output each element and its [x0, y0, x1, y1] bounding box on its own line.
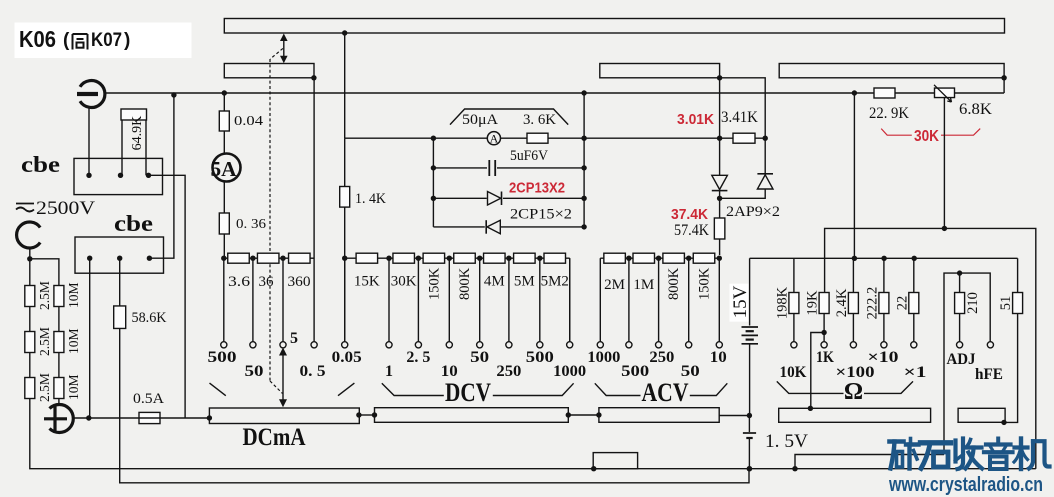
- range terminal ADJ: [957, 342, 963, 348]
- junction dot pad: [591, 466, 596, 471]
- resistor chain 2.5M x3: [29, 259, 31, 286]
- range terminal ACV 1000: [597, 342, 603, 348]
- contact pad small (bottom middle): [593, 453, 637, 469]
- range terminal DCV 2. 5: [415, 342, 421, 348]
- node DCV chain junction: [416, 256, 421, 261]
- resistor 1.4K: [344, 138, 346, 186]
- node shunt start: [221, 256, 226, 261]
- svg-text:15K: 15K: [354, 274, 380, 290]
- wire adj box top: [944, 273, 990, 454]
- resistor 22: [909, 293, 919, 314]
- label 30K red bracket: [881, 129, 912, 136]
- wire range stub 500mA: [223, 258, 225, 342]
- wire 210 to ADJ terminal: [959, 314, 961, 342]
- switch wafer bar top: [224, 19, 1004, 34]
- svg-text:50μA: 50μA: [462, 112, 498, 128]
- node shunt 50: [249, 257, 257, 259]
- wire 64.9K left lead: [121, 120, 123, 175]
- resistor 58.6K: [119, 258, 121, 306]
- svg-text:(: (: [63, 30, 70, 51]
- wire 1.4K riser to top bar: [344, 33, 346, 138]
- node 2500V divider top: [27, 256, 32, 261]
- bracket DCmA left: [210, 383, 226, 396]
- node DCV chain junction: [386, 256, 391, 261]
- wire ACV chain: [600, 257, 719, 259]
- range terminal 50mA: [250, 342, 256, 348]
- svg-text:www.crystalradio.cn: www.crystalradio.cn: [888, 473, 1043, 496]
- junction dot hFE bar: [1001, 420, 1006, 425]
- fuse 5A circle: [213, 154, 241, 182]
- junction dot omega bar: [808, 406, 813, 411]
- wire socket2 pin c down to plus wire: [89, 258, 91, 418]
- terminal jack 2500V: [17, 222, 41, 248]
- svg-text:0. 36: 0. 36: [236, 217, 266, 232]
- junction dot battery to rails: [747, 466, 752, 471]
- svg-text:2M: 2M: [604, 277, 625, 293]
- svg-text:4M: 4M: [484, 274, 505, 290]
- wire range stub DCV 50: [479, 258, 481, 342]
- wire 2500V terminal down: [29, 248, 31, 258]
- wiper arrow bottom: [282, 352, 284, 400]
- svg-text:22. 9K: 22. 9K: [869, 105, 909, 122]
- range terminal 5mA: [280, 342, 286, 348]
- svg-text:1. 5V: 1. 5V: [765, 431, 808, 452]
- junction dot 3.41K left: [717, 136, 722, 141]
- wire range stub DCV 0.05: [344, 258, 346, 342]
- wire 1.4K to DCV chain: [344, 207, 346, 342]
- svg-text:1: 1: [385, 363, 393, 380]
- meter left rail: [432, 138, 434, 227]
- resistor 800K acv: [663, 253, 685, 263]
- junction dot ACV left: [596, 412, 601, 417]
- junction dot DCV right: [566, 412, 571, 417]
- wire DCmA-DCV link: [359, 414, 374, 416]
- node feed 2.4K: [852, 256, 857, 261]
- svg-text:2.5M: 2.5M: [37, 327, 52, 356]
- svg-text:Ω: Ω: [844, 379, 863, 405]
- resistor 2M acv: [604, 253, 626, 263]
- svg-text:2.5M: 2.5M: [37, 373, 52, 402]
- resistor 150K: [423, 253, 445, 263]
- contact bar DCmA: [209, 408, 359, 424]
- svg-text:5A: 5A: [211, 157, 238, 181]
- wire 2.4K top: [852, 258, 854, 292]
- potentiometer 6.8K: [935, 88, 955, 98]
- svg-text:1M: 1M: [633, 277, 654, 293]
- diode 2CP15 (left-pointing): [487, 220, 500, 234]
- switch wafer bar A (DCmA): [224, 64, 314, 78]
- contact bar hFE: [958, 408, 1005, 422]
- range terminal x1: [911, 342, 917, 348]
- node pot wiper to edge: [942, 226, 947, 231]
- svg-text:3.6: 3.6: [228, 274, 251, 290]
- wire bus right corner to bar C: [1003, 78, 1005, 93]
- svg-text:0.04: 0.04: [234, 114, 263, 129]
- wire range stub ACV 500: [628, 258, 630, 342]
- rotary wiper arrow top: [283, 39, 285, 58]
- wire meter row1 right: [548, 137, 720, 139]
- terminal jack plus (bottom left): [50, 405, 74, 433]
- svg-text:3. 6K: 3. 6K: [523, 112, 556, 128]
- wire 19K to terminal: [823, 314, 825, 342]
- svg-text:K06: K06: [19, 26, 56, 52]
- resistor 1M acv: [633, 253, 655, 263]
- svg-text:6.8K: 6.8K: [959, 101, 992, 118]
- bracket meter label: [450, 109, 568, 125]
- resistor 5M2: [544, 253, 566, 263]
- svg-text:1. 4K: 1. 4K: [355, 191, 386, 207]
- wire DCV-ACV link: [568, 414, 599, 416]
- transistor socket box 1: [74, 158, 163, 194]
- svg-text:800K: 800K: [457, 267, 473, 300]
- battery 1.5V: [748, 416, 750, 433]
- range terminal x10: [881, 342, 887, 348]
- svg-text:22: 22: [894, 296, 910, 311]
- wiper dashed link top: [270, 48, 283, 59]
- wire meter row1 left: [345, 137, 488, 139]
- svg-text:5uF6V: 5uF6V: [510, 148, 548, 164]
- svg-text:10K: 10K: [780, 364, 808, 381]
- svg-text:×10: ×10: [868, 349, 899, 366]
- resistor 5M: [514, 253, 536, 263]
- transistor socket box 2: [75, 237, 164, 273]
- wire 64.9K right lead: [145, 120, 147, 175]
- wire 15V to ACV bar junction: [749, 344, 751, 416]
- wire feed corner to 51: [1017, 258, 1019, 292]
- wire diode row 2: [433, 226, 484, 228]
- junction dot link right: [372, 412, 377, 417]
- svg-text:1000: 1000: [553, 363, 586, 380]
- label ACV bracket: [595, 383, 641, 395]
- resistor 57.4K: [719, 198, 721, 218]
- range terminal x100: [850, 342, 856, 348]
- svg-text:cbe: cbe: [114, 211, 153, 236]
- diode 2CP13 (right-pointing): [488, 192, 501, 206]
- node ACV end: [717, 256, 722, 261]
- node 19K branch: [821, 330, 826, 335]
- resistor 800K: [454, 253, 476, 263]
- watermark crystalradio: [890, 439, 1050, 470]
- svg-text:58.6K: 58.6K: [132, 310, 167, 326]
- wire divider top jog: [30, 259, 59, 286]
- node DCV chain junction: [506, 256, 511, 261]
- wire 0.04 to 5A: [223, 131, 225, 154]
- range terminal DCV 0.05: [342, 342, 348, 348]
- contact bar omega: [779, 408, 931, 422]
- svg-text:5M: 5M: [514, 274, 535, 290]
- svg-text:150K: 150K: [697, 267, 713, 300]
- junction dot main bus x174: [171, 92, 176, 97]
- meter right rail: [583, 93, 585, 227]
- range terminal ACV 500: [626, 342, 632, 348]
- junction dot row1 right rail: [581, 136, 586, 141]
- range terminal DCV 500: [537, 342, 543, 348]
- junction dot ACV bar right: [747, 413, 752, 418]
- svg-text:30K: 30K: [391, 274, 417, 290]
- wire adj-left riser: [795, 455, 944, 469]
- svg-text:ACV: ACV: [642, 378, 689, 407]
- svg-text:36: 36: [259, 274, 275, 290]
- wire cap row: [433, 167, 487, 169]
- svg-text:cbe: cbe: [21, 152, 60, 177]
- junction dots diode row 1: [431, 196, 436, 201]
- svg-text:2. 5: 2. 5: [406, 349, 430, 366]
- wire 2.5M column to bottom rail: [30, 399, 1036, 469]
- range terminal 0.5mA: [311, 342, 317, 348]
- svg-text:250: 250: [496, 363, 521, 380]
- wire 198K top: [793, 258, 795, 292]
- title box: [15, 23, 192, 59]
- svg-text:1000: 1000: [587, 349, 620, 366]
- svg-text:1K: 1K: [816, 349, 834, 366]
- wire range stub DCV 1: [388, 258, 390, 342]
- svg-text:57.4K: 57.4K: [674, 222, 709, 239]
- wire 0.36 to shunt chain: [223, 234, 225, 258]
- junction dot diode row 2: [581, 224, 586, 229]
- wire range stub DCV 250: [508, 258, 510, 342]
- svg-text:500: 500: [208, 349, 237, 366]
- wire DCV end down: [569, 258, 571, 342]
- resistor 222.2: [879, 293, 889, 314]
- socket2 pin e: [147, 256, 152, 261]
- svg-text:2CP13X2: 2CP13X2: [509, 181, 565, 197]
- socket1 pin e: [146, 173, 151, 178]
- switch wafer bar C (right): [779, 64, 1004, 78]
- wiper dashed line vertical: [269, 59, 271, 381]
- svg-text:A: A: [490, 132, 499, 146]
- resistor 30K: [393, 253, 415, 263]
- label DCV bracket: [382, 383, 444, 395]
- wire range stub ACV 10: [718, 258, 720, 342]
- svg-text:DCmA: DCmA: [243, 424, 306, 451]
- wire pot wiper down: [943, 98, 945, 229]
- wire 3.41K jog from bar: [720, 78, 766, 173]
- wire diode row 1: [433, 197, 486, 199]
- svg-text:64.9K: 64.9K: [130, 116, 145, 151]
- diode 2AP9 b (up): [757, 173, 773, 175]
- fuse 0.5A: [139, 412, 160, 423]
- wire meter row1 mid: [501, 137, 528, 139]
- node ACV junction: [686, 256, 691, 261]
- range terminal ACV 250: [656, 342, 662, 348]
- wire trimmer junction down: [853, 93, 855, 258]
- svg-text:250: 250: [649, 349, 674, 366]
- resistor 150K acv: [693, 253, 715, 263]
- range terminal ACV 10: [716, 342, 722, 348]
- svg-text:K07: K07: [91, 30, 122, 51]
- wire socket2 pin e up to main bus: [149, 95, 174, 258]
- wire 10M column to plus terminal: [58, 399, 60, 406]
- switch wafer bar B (ACV feed): [600, 64, 720, 78]
- wire 198K to terminal: [793, 314, 795, 342]
- node DCV chain junction: [537, 256, 542, 261]
- wire x10 to terminal: [883, 314, 885, 342]
- svg-text:10M: 10M: [66, 282, 81, 308]
- wire 222.2 top: [883, 258, 885, 292]
- label omega bracket: [777, 381, 844, 393]
- wire range stub ACV 50: [688, 258, 690, 342]
- svg-text:2AP9×2: 2AP9×2: [726, 204, 780, 220]
- junction dot 3.41K right: [763, 136, 768, 141]
- svg-text:150K: 150K: [426, 267, 442, 300]
- plus sign of terminal: [53, 406, 56, 432]
- bracket DCmA right: [338, 383, 354, 396]
- node DCV chain start: [342, 256, 347, 261]
- svg-text:30K: 30K: [914, 128, 940, 145]
- resistor 198K: [789, 293, 799, 314]
- junction dot bus x224: [222, 90, 227, 95]
- junction dot top bar x344: [342, 30, 347, 35]
- range terminal 500mA: [221, 342, 227, 348]
- range terminal DCV 250: [506, 342, 512, 348]
- wire range stub 5mA: [282, 258, 284, 342]
- resistor 3.6: [224, 257, 228, 259]
- svg-text:50: 50: [470, 349, 489, 366]
- resistor 3.6K: [527, 133, 548, 143]
- svg-text:3.41K: 3.41K: [721, 109, 758, 126]
- svg-text:10: 10: [710, 349, 727, 366]
- label 15V: [730, 284, 749, 322]
- wire terminal down to socket pin1: [88, 107, 90, 175]
- resistor 3.41K: [733, 133, 755, 143]
- wire omega feed row: [750, 257, 1018, 259]
- node DCV chain junction: [447, 256, 452, 261]
- wire range stub DCV 10: [448, 258, 450, 342]
- svg-text:800K: 800K: [666, 267, 682, 300]
- junction dot DCmA bar left: [207, 415, 212, 420]
- resistor 4M: [484, 253, 506, 263]
- junction dot bar A corner: [311, 75, 316, 80]
- range terminal 1K: [821, 342, 827, 348]
- socket1 pin b: [118, 173, 123, 178]
- svg-text:10M: 10M: [66, 374, 81, 400]
- wire range stub ACV 250: [658, 258, 660, 342]
- svg-text:2.5M: 2.5M: [37, 281, 52, 310]
- galvanometer A: [487, 132, 500, 145]
- wire omega top edge: [825, 228, 1036, 468]
- resistor 0.04: [223, 93, 225, 111]
- svg-text:360: 360: [288, 274, 311, 290]
- junction dots cap row: [431, 165, 436, 170]
- svg-text:222.2: 222.2: [864, 287, 880, 320]
- range terminal 10K: [791, 342, 797, 348]
- capacitor 5uF6V: [488, 160, 490, 176]
- svg-text:198K: 198K: [774, 286, 790, 319]
- resistor 2.4K: [848, 293, 858, 314]
- svg-text:5: 5: [290, 330, 298, 347]
- svg-text:15V: 15V: [730, 285, 751, 318]
- svg-text:ADJ: ADJ: [947, 351, 976, 368]
- resistor 19K: [819, 293, 829, 314]
- svg-text:10M: 10M: [66, 328, 81, 354]
- node 210 top: [957, 270, 962, 275]
- wire main bus horizontal: [105, 92, 1004, 94]
- range terminal DCV 1000: [567, 342, 573, 348]
- resistor 22.9K: [874, 88, 895, 98]
- junction dot bus x584: [581, 90, 586, 95]
- svg-text:51: 51: [998, 296, 1014, 311]
- svg-text:DCV: DCV: [445, 378, 491, 407]
- resistor 210: [959, 273, 961, 292]
- svg-text:500: 500: [526, 349, 554, 366]
- socket1 pin c: [86, 173, 91, 178]
- junction dot bar B corner: [717, 75, 722, 80]
- junction dot rail x795: [792, 466, 797, 471]
- svg-text:2500V: 2500V: [36, 198, 95, 219]
- socket2 pin c: [87, 256, 92, 261]
- node DCV chain junction: [477, 256, 482, 261]
- junction dot plus wire: [86, 415, 91, 420]
- range terminal ACV 50: [686, 342, 692, 348]
- diode 2AP9 a (down): [712, 175, 728, 189]
- wire range stub DCV 500: [539, 258, 541, 342]
- svg-text:×1: ×1: [904, 364, 927, 381]
- node ACV junction: [656, 256, 661, 261]
- contact bar DCV: [375, 408, 569, 423]
- wire 19K branch to omega bar: [811, 333, 824, 409]
- resistor 360: [289, 253, 311, 263]
- wire 3.41K row: [720, 137, 766, 139]
- resistor 0.36: [219, 213, 229, 234]
- wire ACV bar to battery rail: [719, 415, 749, 417]
- range terminal DCV 1: [386, 342, 392, 348]
- wiper dashed link bottom: [270, 381, 283, 394]
- junction dot bar C corner: [1001, 75, 1006, 80]
- wire bar B corner to 3.41K row: [719, 78, 721, 175]
- wire range stub 50mA: [252, 258, 254, 342]
- junction dot row1 left rail: [431, 136, 436, 141]
- resistor 36: [257, 253, 279, 263]
- svg-text:hFE: hFE: [975, 366, 1003, 383]
- wire range stub DCV 2. 5: [417, 258, 419, 342]
- svg-text:): ): [124, 30, 130, 51]
- svg-text:50: 50: [245, 363, 264, 380]
- svg-text:2.4K: 2.4K: [834, 288, 850, 317]
- svg-text:37.4K: 37.4K: [671, 206, 708, 223]
- node shunt 5: [279, 257, 289, 259]
- svg-text:0.05: 0.05: [332, 349, 362, 366]
- battery 15V: [749, 258, 751, 325]
- junction dot link left: [356, 412, 361, 417]
- node feed 222.2: [881, 256, 886, 261]
- terminal jack minus (top left): [80, 81, 105, 108]
- resistor 15K: [356, 253, 378, 263]
- range terminal DCV 10: [446, 342, 452, 348]
- wire range stub ACV 1000: [599, 258, 601, 342]
- svg-text:210: 210: [965, 292, 981, 314]
- resistor 51: [1013, 293, 1023, 314]
- wire 5A to 0.36: [223, 182, 225, 214]
- svg-text:0.5A: 0.5A: [133, 391, 164, 407]
- contact bar ACV: [599, 408, 719, 423]
- wire x1 to terminal: [913, 314, 915, 342]
- svg-text:3.01K: 3.01K: [677, 111, 714, 128]
- wire range stub DCV 1000: [569, 258, 571, 342]
- svg-text:0. 5: 0. 5: [300, 363, 326, 380]
- wire diodes bottom join: [720, 189, 766, 198]
- node ACV junction: [626, 256, 631, 261]
- wire socket1 pin e to right riser: [149, 175, 186, 418]
- svg-text:19K: 19K: [805, 290, 821, 316]
- wire 51 down to hFE bar: [1004, 314, 1018, 423]
- wire 58.6K down to lower rail: [120, 329, 749, 483]
- wire shunt end riser to bar A: [310, 257, 314, 259]
- range terminal hFE: [987, 342, 993, 348]
- range terminal DCV 50: [477, 342, 483, 348]
- ac 2500V symbol: [16, 203, 34, 205]
- wire x100 to terminal: [852, 314, 854, 342]
- junction dot rail battery: [747, 466, 752, 471]
